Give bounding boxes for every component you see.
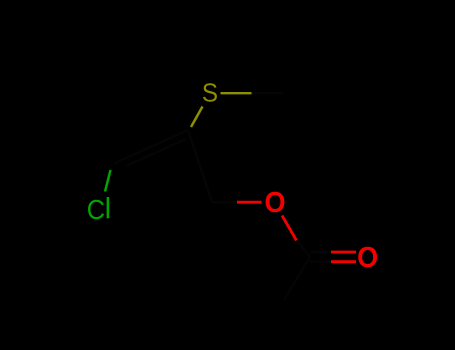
svg-text:O: O [264, 186, 285, 218]
svg-text:C: C [87, 194, 105, 225]
bond C1-Cl (chlorine, green) [105, 170, 111, 192]
atom label Cl letter l (chlorine) [107, 197, 110, 218]
wire C2-C3 bond (carbon, near-black) [188, 130, 212, 202]
bond S-C2 (sulfur, olive) [191, 107, 203, 128]
atom label S (sulfur) [202, 79, 218, 108]
atom label O1 (ester oxygen) [264, 186, 285, 218]
wire C3-O1 carbon half (near-black) [212, 201, 237, 203]
wire S-CH3 carbon half (near-black) [252, 92, 284, 94]
bond C3-O1 (oxygen half, red) [237, 201, 262, 204]
wire C4-CH3 bond (carbon, near-black) [284, 257, 310, 300]
double bond C4=O2 (oxygen halves, red) [331, 252, 356, 262]
svg-text:O: O [357, 242, 378, 274]
wire O1-C4 carbon half (near-black) [297, 241, 311, 258]
bond S-CH3 (sulfur half, olive) [221, 92, 252, 94]
atom label Cl (chlorine) [87, 194, 105, 225]
bond O1-C4 (oxygen half, red) [282, 216, 297, 241]
wire C4=O2 carbon halves (near-black) [310, 252, 331, 262]
atom label O2 (carbonyl oxygen) [357, 242, 378, 274]
svg-text:S: S [202, 79, 218, 108]
wire C2-C1 double bond (carbon, near-black) [113, 130, 188, 166]
